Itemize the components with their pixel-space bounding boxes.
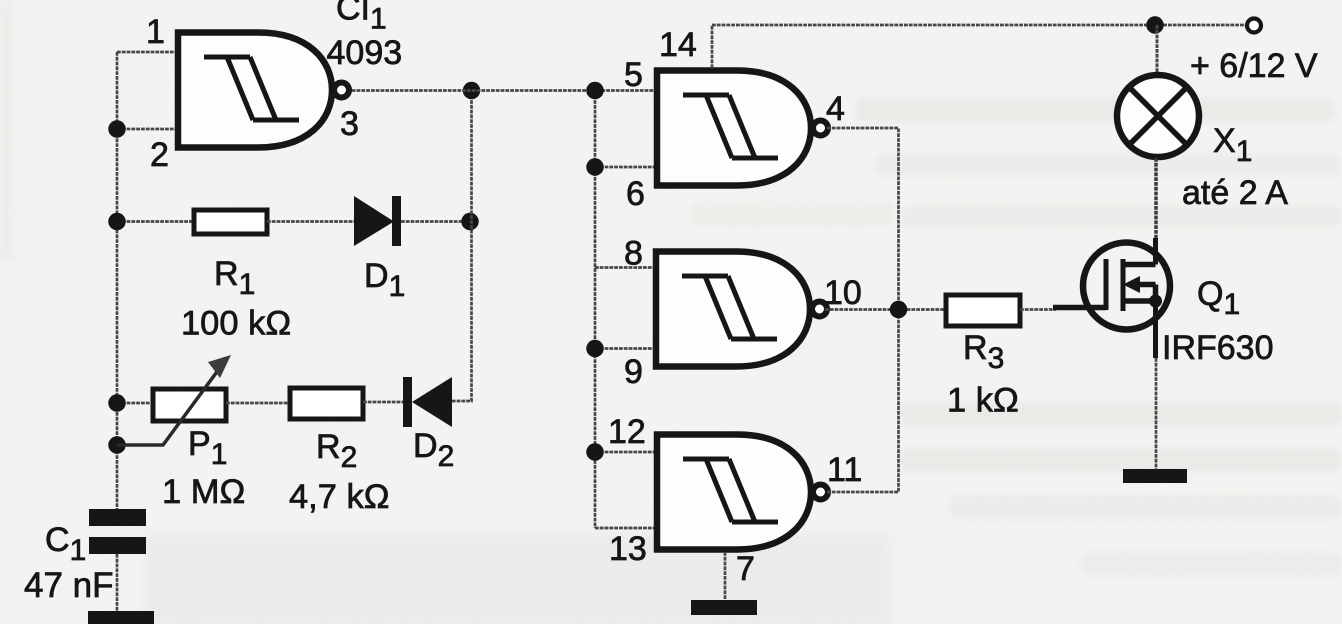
svg-text:13: 13 — [609, 530, 647, 568]
NAND gate CI1-d (pins 12,13,11) — [657, 435, 828, 550]
ground: below C1 — [88, 611, 154, 624]
svg-text:12: 12 — [608, 413, 646, 451]
svg-text:100 kΩ: 100 kΩ — [181, 305, 291, 343]
wire: pin 14 to +V rail — [711, 25, 714, 68]
wire: +V rail to lamp — [1156, 25, 1159, 74]
resistor R2 — [290, 388, 363, 419]
wire: R1 to D1 — [267, 220, 356, 223]
svg-text:9: 9 — [624, 353, 643, 391]
svg-text:7: 7 — [736, 550, 755, 588]
NAND gate CI1-c (pins 8,9,10) — [656, 252, 827, 367]
junction: pin9 — [586, 340, 604, 358]
junction: gate1 output / right bus — [463, 82, 481, 100]
junction: pin2 / left bus — [108, 120, 126, 138]
svg-text:até 2 A: até 2 A — [1182, 174, 1288, 212]
NAND gate CI1-b (pins 5,6,4) — [657, 71, 828, 186]
svg-text:4: 4 — [826, 90, 845, 128]
svg-text:47 nF: 47 nF — [24, 566, 114, 605]
diode D2 — [403, 377, 452, 427]
wire: pin 1 input — [117, 51, 176, 54]
wire: C1 lower lead — [116, 554, 119, 612]
wire: P1 left lead — [117, 402, 153, 405]
terminal: +6/12V — [1247, 19, 1261, 33]
wire: gate3 output pin10 to R3 — [825, 308, 944, 311]
wire: pin 12 input — [595, 451, 657, 454]
wire: pin 9 input — [595, 347, 656, 350]
junction: pin5 — [586, 82, 604, 100]
svg-text:1 kΩ: 1 kΩ — [947, 382, 1019, 420]
wire: Q1 source to ground — [1155, 358, 1158, 470]
junction: outputs join — [890, 301, 908, 319]
junction: pin6 — [586, 158, 604, 176]
junction: pin12 — [586, 443, 604, 461]
wire: pin 13 input — [595, 527, 657, 530]
NAND gate CI1-a (pins 1,2,3) — [178, 33, 349, 148]
diode D1 — [354, 196, 401, 246]
capacitor C1 — [89, 509, 146, 554]
svg-text:3: 3 — [340, 105, 359, 143]
svg-text:8: 8 — [624, 235, 643, 273]
wire: gate2 output pin4 down — [827, 128, 899, 310]
junction: P1 row / left bus — [108, 394, 126, 412]
wire: +V top rail — [712, 24, 1245, 27]
wire: gate1 output to input bus — [347, 89, 657, 92]
junction: lamp / +V rail — [1146, 16, 1164, 34]
resistor R3 — [946, 295, 1020, 326]
svg-text:5: 5 — [624, 56, 643, 94]
transistor Q1 IRF630 (power MOSFET) — [1053, 238, 1170, 358]
wire: R2 to D2 — [363, 401, 404, 404]
wire: P1 to R2 — [226, 402, 290, 405]
wire: lamp to Q1 drain — [1154, 158, 1158, 240]
svg-text:4093: 4093 — [327, 34, 403, 72]
wire: left bus vertical — [116, 52, 119, 509]
svg-text:1 MΩ: 1 MΩ — [162, 473, 245, 511]
wire: pin 7 to ground — [724, 552, 727, 601]
svg-text:11: 11 — [827, 451, 862, 489]
wire: D1 to right bus — [401, 220, 470, 223]
resistor R1 — [194, 210, 267, 234]
wire: right feedback bus vertical — [452, 91, 472, 402]
svg-text:10: 10 — [824, 274, 862, 312]
ground: pin 7 — [691, 600, 757, 615]
svg-text:14: 14 — [659, 26, 697, 64]
ground: Q1 source — [1123, 469, 1187, 483]
lamp X1 — [1117, 75, 1199, 157]
svg-text:+ 6/12 V: + 6/12 V — [1190, 47, 1318, 85]
svg-text:1: 1 — [146, 13, 165, 51]
wire: pin 2 input — [117, 128, 176, 131]
wire: pin 8 input — [595, 266, 656, 269]
wire: gate4 output pin11 up — [827, 310, 899, 493]
wire: R1 left lead — [117, 220, 192, 223]
svg-text:IRF630: IRF630 — [1162, 329, 1274, 367]
junction: D1 row / right bus — [461, 213, 479, 231]
svg-text:2: 2 — [150, 136, 169, 174]
junction: R1 row / left bus — [108, 213, 126, 231]
svg-text:4,7 kΩ: 4,7 kΩ — [289, 478, 390, 516]
wire: pin 6 input — [595, 166, 657, 169]
wire: input bus vertical — [594, 91, 597, 529]
svg-text:6: 6 — [626, 175, 645, 213]
potentiometer P1 — [117, 355, 231, 445]
wire: R3 to Q1 gate — [1020, 308, 1056, 311]
junction: wiper row / left bus — [108, 436, 126, 454]
